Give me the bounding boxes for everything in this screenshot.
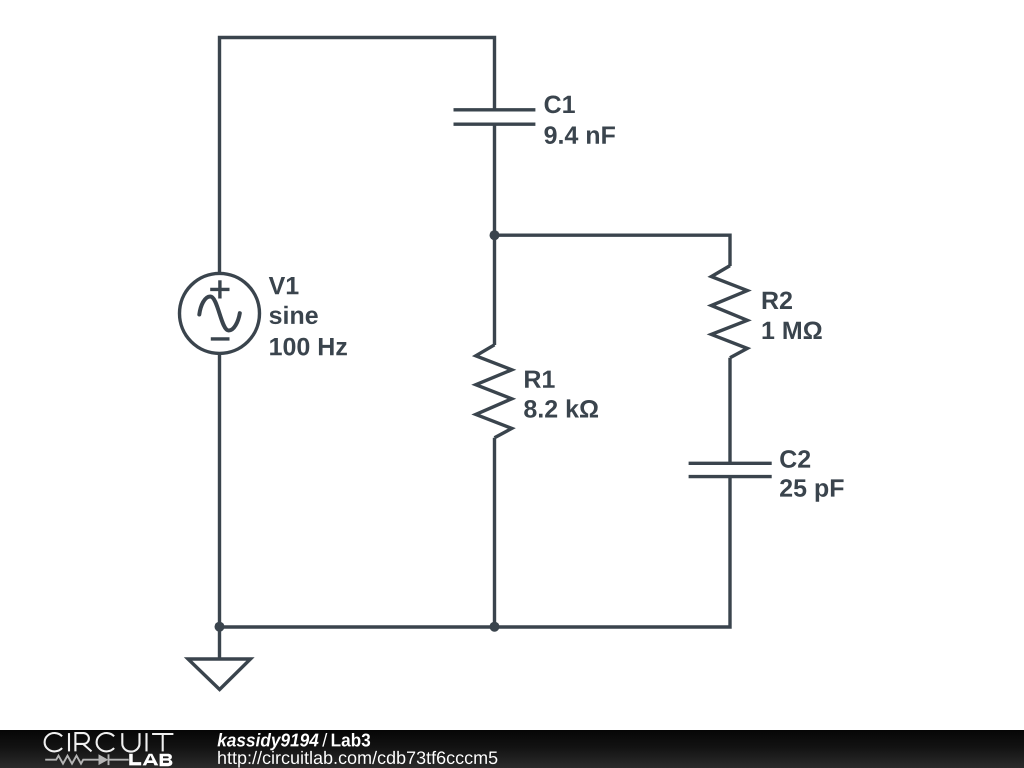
- voltage source V1 sine: [199, 297, 240, 331]
- label C1 designator: [545, 96, 575, 114]
- label C2 designator: [780, 450, 810, 468]
- capacitor C2: [689, 463, 772, 476]
- logo letter I: [68, 733, 70, 751]
- logo diode triangle: [99, 754, 109, 765]
- capacitor C1: [454, 110, 536, 124]
- resistor R2: [711, 266, 747, 358]
- logo LAB letter B: [160, 754, 173, 766]
- label V1 designator: [269, 277, 299, 294]
- label R2 designator: [763, 292, 792, 309]
- CircuitLab logo wordmark CIRCUIT: [45, 733, 174, 752]
- label V1 type sine: [269, 306, 317, 324]
- label R1 designator: [525, 371, 555, 388]
- ground node junction dot: [215, 622, 225, 632]
- node A junction dot: [490, 230, 500, 240]
- footer url: [218, 751, 497, 768]
- logo letter I: [145, 733, 147, 751]
- V1 minus sign: [211, 337, 230, 340]
- voltage source V1 circle: [180, 273, 260, 353]
- footer bar: [0, 730, 1024, 768]
- ground: [188, 659, 251, 690]
- wire: R2 bottom to C2 top: [728, 358, 731, 464]
- wire: C1 bottom to R1 top through node A: [493, 124, 496, 345]
- junction dot bottom middle: [490, 622, 500, 632]
- label R2 value 1 MOhm: [763, 322, 822, 339]
- footer separator slash: [322, 733, 327, 747]
- logo LAB letter A: [143, 754, 159, 766]
- logo letter U: [122, 733, 139, 752]
- resistor R1: [476, 345, 512, 438]
- label R1 value 8.2 kOhm: [524, 399, 598, 417]
- logo circuit squiggle: wire-resistor-diode-wire: [45, 754, 129, 765]
- wire: C2 bottom down and bottom rail to ground node: [220, 477, 731, 627]
- V1 plus sign: [210, 280, 229, 298]
- wire: V1 bottom to ground stub: [218, 353, 221, 659]
- logo letter T: [152, 734, 173, 751]
- logo letter R: [75, 733, 91, 751]
- wire: R1 bottom to bottom rail: [493, 438, 496, 627]
- logo LAB letter L: [129, 754, 141, 766]
- label V1 value 100 Hz: [270, 338, 347, 356]
- footer author kassidy9194: [217, 733, 318, 750]
- logo letter C: [97, 733, 114, 751]
- label C1 value 9.4 nF: [544, 126, 614, 144]
- wire: top loop from V1 top up, across, down to C1: [220, 38, 495, 275]
- logo letter C: [45, 733, 62, 751]
- footer title Lab3: [332, 733, 370, 747]
- wire: node A to R2 top: [495, 235, 731, 266]
- label C2 value 25 pF: [780, 479, 844, 502]
